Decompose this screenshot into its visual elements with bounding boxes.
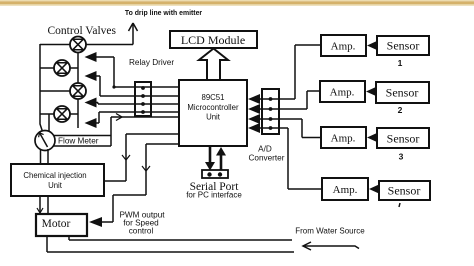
amplifier A4	[322, 178, 368, 200]
svg-text:Amp.: Amp.	[331, 41, 356, 53]
sensor S3	[377, 128, 429, 148]
wire adc to microcontroller ch1	[248, 94, 279, 104]
flow meter	[35, 131, 55, 151]
wire pipe stub valve V4 out	[70, 113, 78, 115]
wire pipe stub valve V2 out	[70, 67, 78, 69]
svg-text:Flow Meter: Flow Meter	[58, 137, 99, 146]
svg-text:Sensor: Sensor	[387, 132, 420, 146]
arrow from water source	[303, 242, 359, 250]
label a/d converter	[249, 145, 285, 163]
a/d converter block	[262, 89, 279, 134]
svg-text:Sensor: Sensor	[388, 184, 421, 198]
svg-text:To drip line with emitter: To drip line with emitter	[125, 10, 203, 17]
block arrow microcontroller to lcd	[199, 49, 228, 81]
wire relay output 1 to valve V1	[85, 52, 180, 89]
lcd module	[170, 31, 257, 48]
wire pipe branch to valve V2	[40, 67, 54, 69]
wire pipe branch to valve V1	[40, 44, 70, 46]
svg-text:2: 2	[398, 105, 403, 115]
wire pipe branch to valve V3	[40, 90, 70, 92]
wire pipe branch to valve V4	[40, 114, 54, 131]
wire adc to microcontroller ch2	[248, 104, 279, 114]
microcontroller U1 89C51	[179, 80, 247, 146]
svg-text:3: 3	[399, 152, 404, 162]
svg-text:Unit: Unit	[206, 113, 221, 122]
wire pipe chemical unit to motor	[37, 196, 48, 214]
svg-text:Control Valves: Control Valves	[48, 25, 117, 37]
wire adc to microcontroller ch3	[248, 114, 279, 124]
chemical injection unit	[11, 164, 104, 196]
svg-text:Sensor: Sensor	[386, 86, 419, 100]
svg-text:A/D: A/D	[258, 145, 272, 154]
sensor S1	[377, 36, 429, 55]
amplifier A1	[321, 35, 366, 56]
label chemical injection unit	[23, 171, 86, 190]
svg-text:Unit: Unit	[48, 181, 63, 190]
arrow serial port receive (up)	[216, 147, 226, 170]
svg-text:From Water Source: From Water Source	[295, 227, 365, 236]
label pwm output for speed control	[119, 211, 165, 236]
svg-text:Microcontroller: Microcontroller	[187, 103, 239, 112]
wire amp2 to adc	[279, 91, 320, 109]
wire relay output 2 to valve V2	[85, 71, 180, 96]
wire pipe to drip line	[86, 24, 133, 45]
serial port connector	[202, 170, 228, 178]
wire pipe flow meter to chemical unit	[41, 149, 49, 164]
svg-text:Amp.: Amp.	[330, 87, 355, 99]
wire amp1 to adc	[279, 45, 321, 99]
svg-text:Converter: Converter	[249, 154, 285, 163]
wire amp3 to adc	[279, 119, 321, 138]
svg-text:LCD Module: LCD Module	[181, 33, 245, 47]
wire motor water outlet upper	[69, 236, 292, 240]
wire adc to microcontroller ch4	[248, 123, 279, 133]
arrow sensor3 to amp3	[367, 133, 379, 143]
label number 4 mark	[399, 203, 400, 207]
valve V2	[54, 60, 70, 76]
relay driver block	[135, 82, 151, 116]
motor	[36, 214, 87, 236]
svg-text:Chemical injection: Chemical injection	[23, 171, 86, 180]
sensor S2	[376, 82, 429, 103]
wire flow meter signal to microcontroller	[53, 114, 179, 147]
svg-text:89C51: 89C51	[202, 93, 225, 102]
sensor S4	[379, 181, 430, 200]
arrow to drip line	[129, 23, 138, 31]
wire pipe left bus	[40, 44, 43, 132]
svg-text:for PC interface: for PC interface	[186, 191, 242, 200]
wire relay output 3 to valve V3	[85, 98, 180, 108]
svg-text:Amp.: Amp.	[333, 184, 358, 196]
svg-text:Relay Driver: Relay Driver	[129, 58, 174, 67]
arrow serial port transmit (down)	[205, 146, 215, 171]
arrow sensor2 to amp2	[366, 87, 378, 97]
arrow sensor1 to amp1	[367, 41, 379, 51]
svg-text:control: control	[129, 227, 154, 236]
amplifier A2	[320, 81, 365, 102]
svg-text:1: 1	[398, 58, 403, 68]
wire chemical unit control	[104, 134, 179, 181]
valve V1	[70, 37, 86, 53]
wire pipe right bus through valves	[77, 50, 79, 128]
wire pwm output to motor	[89, 144, 179, 227]
valve V3	[70, 83, 86, 99]
arrow sensor4 to amp4	[369, 184, 381, 194]
wire relay output 4 to valve V4	[85, 112, 180, 128]
svg-text:Motor: Motor	[42, 218, 71, 230]
svg-text:Amp.: Amp.	[331, 133, 356, 145]
wire motor water outlet lower	[47, 236, 294, 252]
valve V4	[54, 106, 70, 122]
amplifier A3	[321, 127, 366, 148]
svg-text:Sensor: Sensor	[387, 39, 420, 53]
wire amp4 to adc	[279, 128, 322, 189]
label 89C51 microcontroller unit	[187, 93, 239, 122]
